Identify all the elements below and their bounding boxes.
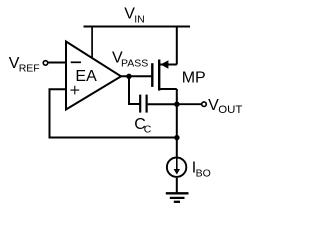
wire EA output to gate — [121, 75, 151, 77]
current source IBO circle — [167, 158, 186, 177]
wire MP source from rail — [176, 26, 178, 65]
node feedback junction dot — [174, 135, 179, 140]
node output junction dot — [174, 102, 179, 107]
minus input sign — [71, 61, 81, 63]
wire EA supply — [91, 26, 93, 60]
wire feedback to non-inverting input — [50, 89, 177, 137]
svg-text:VOUT: VOUT — [208, 97, 242, 116]
wire capacitor to output node — [148, 103, 177, 105]
svg-text:CC: CC — [134, 116, 152, 136]
wire VREF to inverting input — [48, 62, 66, 64]
capacitor CC right plate — [146, 95, 148, 113]
terminal VOUT circle — [202, 102, 207, 107]
wire output node to VOUT terminal — [177, 103, 202, 105]
svg-text:VIN: VIN — [124, 5, 144, 25]
wire current source to ground — [176, 178, 178, 193]
svg-text:VREF: VREF — [9, 55, 40, 75]
svg-text:MP: MP — [182, 70, 206, 87]
node VPASS junction dot — [126, 74, 131, 79]
wire VIN rail — [84, 26, 191, 28]
ground symbol — [166, 192, 189, 194]
svg-text:EA: EA — [75, 68, 97, 85]
wire VPASS down to capacitor — [129, 76, 140, 104]
current source IBO arrow — [176, 158, 178, 170]
capacitor CC left plate — [139, 95, 141, 113]
terminal VREF circle — [43, 61, 48, 66]
plus input sign — [70, 86, 79, 95]
op-amp EA triangle — [66, 42, 121, 110]
transistor MP source lead — [160, 64, 177, 66]
svg-text:IBO: IBO — [192, 159, 211, 179]
transistor MP source arrow — [161, 60, 169, 68]
wire drain down to current source — [176, 89, 178, 157]
transistor MP channel bar — [158, 60, 160, 91]
svg-text:VPASS: VPASS — [112, 50, 148, 70]
transistor MP gate bar — [151, 63, 153, 87]
transistor MP drain lead — [160, 88, 177, 90]
